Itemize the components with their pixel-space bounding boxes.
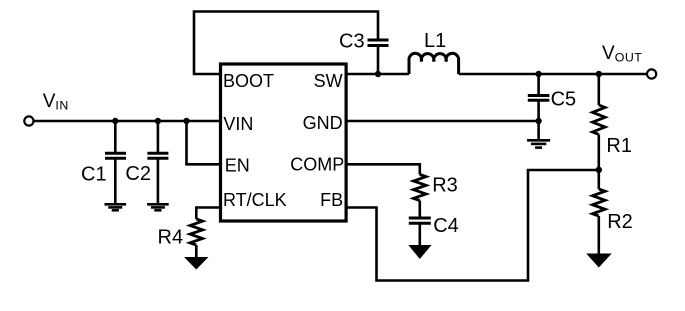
svg-text:BOOT: BOOT (223, 71, 274, 91)
svg-text:VIN: VIN (43, 91, 69, 113)
svg-text:RT/CLK: RT/CLK (223, 190, 287, 210)
svg-text:FB: FB (320, 190, 343, 210)
svg-text:GND: GND (303, 113, 343, 133)
svg-text:R4: R4 (158, 227, 184, 249)
svg-text:SW: SW (314, 71, 343, 91)
svg-text:R2: R2 (607, 211, 633, 233)
svg-text:R1: R1 (606, 135, 632, 157)
svg-text:L1: L1 (424, 30, 446, 52)
svg-text:EN: EN (225, 155, 250, 175)
svg-text:C3: C3 (339, 30, 365, 52)
svg-text:C5: C5 (551, 89, 577, 111)
svg-text:VIN: VIN (223, 114, 253, 134)
svg-text:C2: C2 (125, 163, 151, 185)
svg-text:COMP: COMP (290, 155, 344, 175)
svg-text:VOUT: VOUT (602, 43, 642, 65)
svg-text:C1: C1 (81, 163, 107, 185)
svg-text:R3: R3 (432, 175, 458, 197)
svg-text:C4: C4 (433, 215, 459, 237)
